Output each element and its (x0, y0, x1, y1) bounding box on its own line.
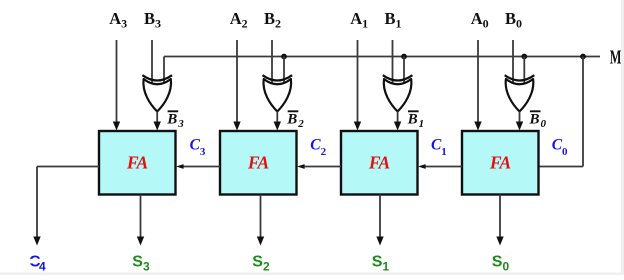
wire B3 input (151, 40, 153, 84)
svg-text:FA: FA (126, 153, 148, 173)
svg-text:FA: FA (368, 153, 390, 173)
node M junction for C0 (580, 54, 586, 60)
wire M tap to xor 0 (523, 57, 525, 85)
svg-text:3: 3 (143, 260, 150, 274)
wire A1 input with arrow (357, 40, 359, 123)
wire xor 1 output with arrow (397, 112, 399, 123)
node M junction for B0 xor (521, 54, 527, 60)
xor gate U2 (263, 79, 291, 112)
svg-text:0: 0 (562, 146, 568, 158)
wire carry C3 with arrow (184, 166, 221, 168)
wire C0 into FA0 right side (538, 166, 584, 168)
svg-text:0: 0 (503, 260, 510, 274)
wire S2 output with arrow (260, 195, 262, 238)
svg-text:1: 1 (419, 118, 425, 130)
full adder FA1 (341, 131, 418, 195)
wire S3 output with arrow (140, 195, 142, 238)
svg-text:2: 2 (321, 146, 327, 158)
svg-text:S: S (372, 254, 383, 271)
wire carry C2 with arrow (305, 166, 342, 168)
wire M tap to xor 2 (283, 57, 285, 85)
full adder FA2 (220, 131, 297, 195)
wire M horizontal (164, 56, 600, 58)
svg-text:0: 0 (541, 118, 547, 130)
wire A0 input with arrow (477, 40, 479, 123)
wire xor 2 output with arrow (276, 112, 278, 123)
wire B1 input (392, 40, 394, 84)
svg-text:S: S (132, 254, 143, 271)
svg-text:4: 4 (39, 260, 46, 274)
svg-text:B: B (407, 112, 418, 128)
wire B0 input (512, 40, 514, 84)
xor gate U1 (384, 79, 412, 112)
svg-text:S: S (492, 254, 503, 271)
svg-text:B: B (286, 112, 297, 128)
svg-text:1: 1 (441, 146, 447, 158)
wire B2 input (271, 40, 273, 84)
wire xor 3 output with arrow (156, 112, 158, 123)
wire C4 out of FA3 (37, 166, 99, 168)
wire M down to C0 level (582, 57, 584, 167)
full adder FA0 (462, 131, 539, 195)
xor gate U0 (506, 79, 534, 112)
wire xor 0 output with arrow (519, 112, 521, 123)
svg-text:FA: FA (489, 153, 511, 173)
wire C4 down with arrow (36, 167, 38, 238)
node M junction for B2 xor (281, 54, 287, 60)
svg-text:2: 2 (297, 118, 304, 130)
wire A3 input with arrow (116, 40, 118, 123)
wire M tap to xor 3 (163, 57, 165, 85)
wire A2 input with arrow (236, 40, 238, 123)
full adder FA3 (99, 131, 176, 195)
node M junction for B1 xor (401, 54, 407, 60)
svg-text:1: 1 (383, 260, 390, 274)
wire S1 output with arrow (379, 195, 381, 238)
svg-text:M: M (610, 46, 622, 69)
svg-text:FA: FA (247, 153, 269, 173)
svg-text:2: 2 (263, 260, 270, 274)
svg-text:3: 3 (177, 118, 184, 130)
wire S0 output with arrow (499, 195, 501, 238)
svg-text:3: 3 (200, 146, 206, 158)
svg-text:S: S (252, 254, 263, 271)
svg-text:B: B (529, 112, 540, 128)
wire carry C1 with arrow (426, 166, 463, 168)
wire M tap to xor 1 (403, 57, 405, 85)
xor gate U3 (143, 79, 171, 112)
svg-text:B: B (166, 112, 177, 128)
